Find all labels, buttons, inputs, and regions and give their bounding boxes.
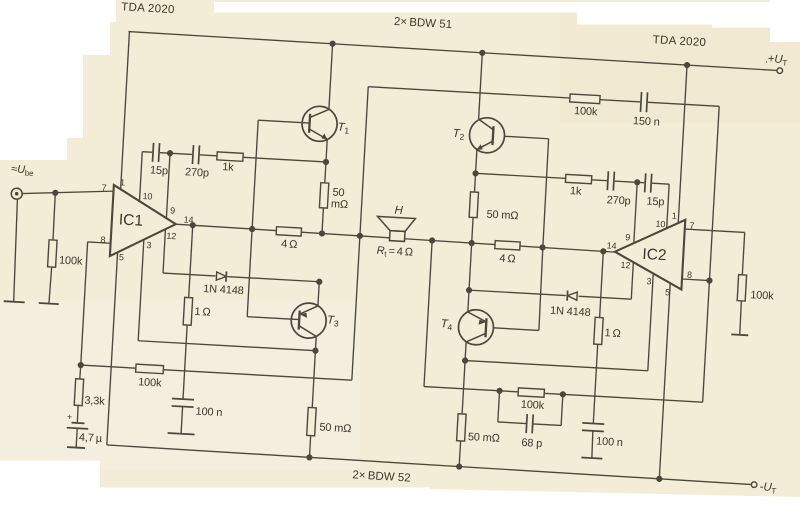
pin 14 label IC1 (183, 215, 193, 226)
svg-text:100k: 100k (59, 255, 84, 268)
svg-text:IC2: IC2 (642, 246, 667, 264)
label 270p right (606, 194, 631, 207)
node junction 50mOhm-right bottom rail (456, 463, 463, 470)
svg-text:50 mΩ: 50 mΩ (319, 421, 352, 435)
label T1 (337, 122, 350, 136)
label 2xBDW51 (394, 16, 453, 31)
svg-text:1 Ω: 1 Ω (194, 306, 211, 319)
white margin top-right-1 (577, 2, 712, 25)
wire IC2-14 column (600, 251, 604, 317)
pin 9 label IC1 (170, 205, 176, 215)
wire T2 emitter (475, 150, 477, 193)
svg-text:9: 9 (170, 205, 176, 215)
label 100k combo (520, 399, 545, 412)
wire T4 collector column (468, 243, 472, 312)
node junction IC2 pin1 top rail (684, 62, 691, 69)
label T4 (440, 318, 453, 332)
svg-text:50 mΩ: 50 mΩ (486, 209, 519, 223)
diode 1N4148 left (215, 271, 228, 282)
svg-text:100k: 100k (138, 376, 163, 389)
label T3 (327, 314, 340, 328)
capacitor 4.7u electrolytic (67, 422, 89, 428)
wire speaker-right column (424, 240, 432, 386)
pin 10 label IC1 (142, 191, 152, 202)
wire T2 collector (479, 53, 483, 119)
pin 8 label IC1 (100, 235, 106, 245)
wire IC1 pin9 column (166, 153, 170, 218)
resistor 100k input (48, 240, 57, 267)
wire IC2 pin8 row (682, 279, 709, 281)
svg-text:7: 7 (689, 220, 695, 230)
white margin top-right-2 (712, 2, 770, 28)
node junction pin8 right (706, 277, 713, 284)
svg-text:68 p: 68 p (521, 437, 542, 450)
label 50mOhm bottom left (319, 421, 352, 435)
node junction T3 bracket (312, 347, 319, 354)
ground 100k input (39, 303, 59, 304)
label 50mOhm T2 (486, 209, 519, 223)
label 100k pin7 (750, 289, 775, 302)
wire diode row right (469, 290, 631, 299)
wire IC2 pin12 column (631, 262, 633, 299)
wire T4 base (493, 328, 538, 331)
resistor 50mOhm T1 (319, 183, 328, 208)
resistor 4ohm right (495, 241, 520, 250)
wire pin7 100k bottom (739, 301, 741, 335)
node junction T4 bracket (462, 357, 469, 364)
label Rt 4ohm (376, 245, 413, 261)
resistor 50mOhm bottom left (307, 407, 317, 435)
svg-text:100 n: 100 n (596, 436, 623, 449)
node junction 15p 270p (167, 150, 174, 157)
svg-text:4 Ω: 4 Ω (281, 238, 298, 251)
svg-text:7: 7 (101, 183, 107, 193)
wire caps row right (476, 173, 670, 184)
node junction 50mOhm-left bottom rail (306, 454, 313, 461)
wire bracket row left (138, 341, 315, 351)
svg-text:12: 12 (620, 260, 630, 271)
label T2 (452, 128, 465, 142)
wire 1ohm to 100n left (183, 325, 187, 399)
wire IC2 pin9 column (634, 182, 637, 243)
label 1ohm left (194, 306, 211, 319)
resistor 1k left (217, 152, 243, 161)
svg-text:8: 8 (687, 270, 693, 280)
pin 12 label IC1 (166, 231, 176, 242)
node junction pin8col 100krow (77, 362, 84, 369)
wire caps row left (142, 152, 326, 162)
wire pin7 100k top (742, 232, 744, 274)
label 1k left (222, 161, 235, 174)
svg-text:1 Ω: 1 Ω (604, 327, 621, 340)
node junction input 100k (52, 190, 59, 197)
resistor 1ohm left (183, 297, 193, 325)
wire T1 base corner column (252, 120, 258, 229)
capacitor 100n left (172, 399, 194, 408)
node junction speaker left (357, 233, 364, 240)
wire IC2 pin10 column (667, 184, 669, 228)
wire bracket row right (465, 361, 648, 371)
pin 5 label IC2 (665, 287, 671, 297)
ground 100n right (581, 457, 602, 458)
wire 100k input bottom (49, 267, 52, 304)
resistor 50mOhm T2 (469, 192, 478, 218)
label 270p left (185, 166, 210, 179)
pin 10 label IC2 (655, 219, 665, 230)
capacitor 15p right (644, 172, 653, 193)
wire 4.7u stem (76, 428, 77, 447)
wire top +UT rail (128, 32, 780, 71)
svg-text:270p: 270p (185, 166, 210, 179)
pin 1 label IC1 (120, 177, 126, 187)
wire speaker-left column (352, 87, 368, 381)
pin 1 label IC2 (672, 211, 678, 221)
svg-text:100 n: 100 n (195, 406, 222, 419)
label 2xBDW52 (352, 469, 411, 484)
wire T1 base row (258, 120, 309, 123)
node junction caps row T1 emitter (323, 159, 330, 166)
terminal -UT (751, 481, 777, 496)
svg-text:8: 8 (100, 235, 106, 245)
wire IC1 pin1 column (left outer) (121, 32, 130, 190)
wire T2 base row (504, 136, 548, 138)
label 100k feedback (574, 105, 599, 118)
wire T4 emitter down (462, 342, 466, 414)
transistor T3 BDW52 pnp (290, 302, 327, 339)
wire T3 emitter down (312, 336, 316, 407)
label 3.3k (84, 395, 105, 408)
wire pin8 right column (703, 106, 720, 402)
svg-text:H: H (394, 204, 404, 216)
label 4.7u (79, 432, 104, 445)
label 1N4148 right (550, 305, 591, 319)
resistor 3.3k (74, 379, 83, 406)
capacitor 270p left (191, 144, 200, 165)
node junction T1 collector top rail (329, 40, 336, 47)
node junction 4ohmR left (468, 240, 475, 247)
label Ube (11, 163, 35, 178)
node junction IC1 out (189, 222, 196, 229)
ground 100k pin7 (731, 333, 748, 336)
capacitor 270p right (606, 170, 615, 191)
label 100k row left (138, 376, 163, 389)
svg-text:10: 10 (655, 219, 665, 230)
diode 1N4148 right (565, 290, 579, 301)
transistor T2 BDW51 npn (469, 117, 506, 154)
wire bottom -UT rail (107, 445, 755, 485)
pin 3 label IC2 (646, 276, 652, 286)
svg-text:5: 5 (119, 252, 125, 262)
wire 50mOhm T2 down (472, 217, 473, 243)
svg-text:12: 12 (166, 231, 176, 242)
wire feedback rail 2 (368, 87, 719, 107)
label 1ohm right (604, 327, 621, 340)
wire 50mOhm br down (459, 441, 460, 467)
label 4ohm right (499, 253, 516, 266)
op-amp IC2 (613, 216, 685, 290)
node junction 4ohmL right (319, 230, 326, 237)
resistor 100k combo (518, 388, 544, 397)
node junction diodeL T3col (316, 278, 323, 285)
wire 100k input top (53, 193, 56, 240)
white margin bottom-middle (100, 488, 430, 510)
ground 4.7u (67, 447, 85, 448)
node junction combo right (560, 391, 567, 398)
wire T1 collector (329, 44, 333, 110)
svg-text:3,3k: 3,3k (84, 395, 105, 408)
node junction T2em capsrow (472, 170, 479, 177)
label TDA2020 right (652, 34, 706, 49)
label plus 4.7u (67, 412, 73, 422)
svg-text:10: 10 (142, 191, 152, 202)
pin 3 label IC1 (146, 240, 152, 250)
wire input to IC1 pin7 (17, 186, 114, 199)
svg-text:50 mΩ: 50 mΩ (468, 431, 501, 445)
white margin bottom-left (0, 461, 100, 510)
pin 12 label IC2 (620, 260, 630, 271)
wire IC2 pin5 column (659, 283, 670, 478)
wire 100n right stem (591, 431, 593, 458)
svg-text:14: 14 (606, 240, 616, 251)
label 50mOhm T1 (331, 187, 349, 212)
node junction speaker right (429, 237, 436, 244)
wire 100n left stem (181, 407, 183, 434)
svg-text:mΩ: mΩ (331, 198, 349, 211)
pin 8 label IC2 (687, 270, 693, 280)
wire IC2 pin7 row (685, 229, 745, 232)
svg-text:1k: 1k (222, 161, 235, 174)
node junction IC2 pin5 bottom rail (656, 476, 663, 483)
label 68p (521, 437, 542, 450)
speaker H (376, 216, 415, 242)
resistor 100k pin7 (737, 275, 746, 301)
wire IC2 pin1 column (678, 65, 687, 224)
ground 100n left (168, 433, 195, 435)
label 150n (633, 115, 660, 128)
wire T3 collector (318, 282, 319, 306)
white margin bottom-right (430, 489, 800, 509)
wire IC1 pin12 column (163, 229, 165, 273)
wire 50mOhm T1 down (322, 208, 323, 234)
svg-text:15p: 15p (646, 196, 665, 209)
wire IC1 pin3 column (138, 240, 144, 341)
wire 3.3k top (79, 365, 82, 379)
svg-text:4 Ω: 4 Ω (499, 253, 516, 266)
wire output row (176, 224, 616, 252)
wire IC1 pin8 (81, 242, 111, 366)
svg-text:9: 9 (625, 232, 631, 242)
transistor T4 BDW52 pnp (458, 309, 495, 346)
wire 100k row left (81, 365, 352, 380)
pin 14 label IC2 (606, 240, 616, 251)
terminal +UT (765, 53, 788, 74)
svg-text:3: 3 (646, 276, 652, 286)
node junction 270p 15p right (634, 179, 641, 186)
label 4ohm left (281, 238, 298, 251)
svg-text:270p: 270p (606, 194, 631, 207)
resistor 4ohm left (276, 227, 301, 236)
svg-text:IC1: IC1 (118, 211, 143, 229)
node junction diodeR T4col (466, 287, 473, 294)
white margin top-right-corner (770, 0, 800, 42)
label 1N4148 left (203, 283, 244, 297)
svg-text:1: 1 (120, 177, 126, 187)
pin 5 label IC1 (119, 252, 125, 262)
label TDA2020 left (121, 1, 175, 16)
wire T2 base corner column (538, 139, 550, 331)
svg-text:3: 3 (146, 240, 152, 250)
node junction 4ohmR right (539, 244, 546, 251)
svg-text:4,7 µ: 4,7 µ (79, 432, 104, 445)
wire T1 emitter (325, 139, 327, 183)
wire combo row (424, 387, 703, 403)
wire 3.3k to cap (77, 405, 78, 423)
svg-text:100k: 100k (520, 399, 545, 412)
pin 7 label IC2 (689, 220, 695, 230)
capacitor 68p branch (497, 391, 563, 435)
wire input terminal down (12, 199, 20, 301)
pin 9 label IC2 (625, 232, 631, 242)
svg-text:100k: 100k (750, 289, 775, 302)
svg-text:1N 4148: 1N 4148 (203, 283, 244, 297)
label 100k input (59, 255, 84, 268)
svg-text:1: 1 (672, 211, 678, 221)
pin 7 label IC1 (101, 183, 107, 193)
node junction combo left (496, 388, 503, 395)
wire 1ohm to 100n right (593, 344, 597, 423)
label 1k right (570, 185, 583, 198)
label 50mOhm bottom right (468, 431, 501, 445)
wire 50mOhm bl down (309, 436, 310, 458)
node junction 4ohmL left (249, 226, 256, 233)
label 100n right (596, 436, 623, 449)
node junction T2 collector top rail (479, 50, 486, 57)
terminal input Ube (11, 188, 23, 200)
wire IC2 pin3 column (648, 274, 653, 371)
label 100n left (195, 406, 222, 419)
resistor 100k feedback (570, 94, 600, 104)
resistor 1ohm right (594, 317, 603, 344)
svg-text:5: 5 (665, 287, 671, 297)
capacitor 150n feedback (639, 91, 648, 113)
wire IC1 pin5 column (107, 252, 118, 445)
transistor T1 BDW51 npn (301, 105, 338, 142)
capacitor 15p left (152, 142, 161, 163)
white margin top-middle (214, 2, 577, 13)
node junction IC2 in (600, 248, 607, 255)
white margin top-left (0, 0, 116, 160)
svg-text:+: + (67, 412, 73, 422)
wire diode row left (163, 273, 319, 282)
label 15p left (150, 164, 169, 177)
label 15p right (646, 196, 665, 209)
op-amp IC1 (110, 185, 178, 260)
svg-text:1k: 1k (570, 185, 583, 198)
capacitor 100n right (582, 423, 604, 432)
label H (394, 204, 404, 216)
resistor 1k right (565, 174, 591, 183)
svg-text:100k: 100k (574, 105, 599, 118)
resistor 50mOhm bottom right (457, 414, 466, 441)
svg-text:15p: 15p (150, 164, 169, 177)
resistor 100k row left (136, 364, 164, 374)
wire IC1-14 column (189, 225, 193, 297)
svg-text:150 n: 150 n (633, 115, 660, 128)
svg-text:1N 4148: 1N 4148 (550, 305, 591, 319)
wire T3 base (247, 229, 304, 320)
wire IC1 pin10 column (139, 152, 142, 202)
ground input terminal (4, 301, 25, 302)
